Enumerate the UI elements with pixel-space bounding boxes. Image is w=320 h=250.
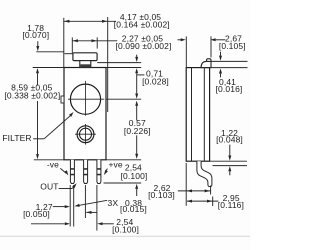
dim 0,57 upper shaft [136, 105, 138, 121]
out leader line a [59, 188, 73, 190]
svg-text:[0.100]: [0.100] [112, 225, 139, 235]
svg-text:[0.100]: [0.100] [121, 171, 148, 181]
circle center extension line [106, 98, 141, 100]
dim 2,62 right extension line [210, 186, 212, 195]
dim 4,17 right arrow [102, 20, 107, 23]
pin1 left extension line [69, 185, 71, 227]
pin 3 [97, 160, 101, 184]
dim 1,78 down arrow [36, 46, 39, 51]
dim 1,78 arrow shaft [37, 41, 39, 46]
dim 2,54 pitch left arrow [86, 211, 91, 214]
dim 4,17 dimension line [63, 20, 116, 22]
dim 0,71 top arrow [135, 57, 138, 62]
dim 0,41 top arrow [219, 56, 222, 61]
-ve leader arrow [64, 170, 68, 175]
cap top extension line [65, 53, 73, 55]
body bottom left extension line [34, 159, 64, 161]
lens cap [73, 53, 97, 61]
dim 3X 0,38 leader shaft [80, 200, 108, 205]
dim 1,22 lower shaft [229, 171, 231, 175]
hole crosshair horizontal [75, 133, 96, 135]
svg-text:FILTER: FILTER [2, 133, 31, 143]
hole crosshair vertical [85, 124, 87, 145]
side view lens nib and flange [207, 59, 211, 62]
dim 2,27 dimension line [72, 40, 117, 42]
dim 2,62 left extension line [185, 163, 187, 206]
lens window circle [70, 84, 100, 114]
dim 0,41 upper shaft [220, 52, 222, 56]
filter leader dash [33, 138, 44, 140]
dim 8,59 bottom arrow [36, 154, 39, 159]
dim 2,27 right extension line [96, 37, 98, 48]
side view inner wall right [203, 68, 205, 162]
dim 3X 0,38 arrow [74, 204, 79, 207]
filter leader diagonal [44, 116, 70, 139]
svg-text:OUT: OUT [40, 181, 58, 191]
pin1 right extension line [73, 185, 75, 227]
dim 2,62 left arrow [187, 189, 192, 192]
dim 2,54 pitch line [86, 211, 96, 213]
svg-text:[0.226]: [0.226] [124, 126, 151, 136]
dim 0,71 upper shaft [136, 55, 138, 58]
svg-text:[0.338 ±0.002]: [0.338 ±0.002] [4, 91, 60, 101]
dim 1,22 upper line [210, 160, 247, 162]
svg-text:+ve: +ve [108, 160, 122, 170]
+ve leader arrow [104, 170, 108, 175]
dim 2,27 left extension line [71, 37, 73, 53]
pin tip extension line [104, 182, 142, 184]
dim 2,95 right extension line [212, 197, 214, 207]
dim 2,54 span left arrow [65, 222, 70, 225]
svg-text:-ve: -ve [47, 160, 59, 170]
dim 8,59 upper shaft [37, 73, 39, 85]
pin3 left extension line [96, 185, 98, 231]
dim 0,57 upper up arrow [135, 101, 138, 106]
svg-text:[0.090 ±0.002]: [0.090 ±0.002] [116, 41, 172, 51]
dim 2,27 right arrow [92, 39, 97, 42]
mounting hole outer circle [77, 126, 94, 143]
body bottom right extension line [106, 159, 141, 161]
side tab [61, 96, 64, 103]
pin2 extension line [84, 185, 86, 218]
dim 2,67 right extension line [210, 36, 212, 57]
dim 1,22 top arrow [228, 156, 231, 161]
dim 8,59 lower shaft [37, 101, 39, 154]
dim 2,95 dimension line [187, 200, 218, 202]
side view lens dome [201, 61, 211, 67]
side view inner wall left [191, 68, 193, 162]
svg-text:[0.070]: [0.070] [22, 30, 49, 40]
pin 2 [84, 160, 88, 184]
dim 2,54 pin-length lower shaft [136, 189, 138, 196]
front view body [64, 68, 106, 160]
dim 2,54 span right shaft [103, 223, 114, 225]
side view body [186, 68, 209, 162]
lens circle crosshair horizontal [68, 98, 104, 100]
dim 2,67 left extension line [185, 36, 187, 67]
svg-text:[0.103]: [0.103] [148, 190, 175, 200]
svg-text:[0.116]: [0.116] [218, 200, 244, 210]
dim 1,27 leader arrow [65, 205, 70, 208]
svg-text:[0.164 ±0.002]: [0.164 ±0.002] [114, 19, 170, 29]
dim 4,17 left extension line [63, 18, 65, 68]
dim 0,41 bottom arrow [219, 68, 222, 73]
lens circle crosshair vertical [85, 81, 87, 116]
svg-text:[0.050]: [0.050] [23, 209, 50, 219]
dim 2,54 span right arrow [97, 222, 102, 225]
dim 2,27 left arrow [73, 39, 78, 42]
side view pin [197, 161, 212, 186]
dim 2,62 right arrow [205, 189, 210, 192]
dim 2,67 left arrow [181, 38, 186, 41]
dim 2,62 dimension line [178, 190, 210, 192]
body top right extension line [106, 67, 141, 69]
dim 2,95 left arrow [187, 200, 192, 203]
dim 2,67 right arrow [210, 38, 215, 41]
svg-text:[0.016]: [0.016] [216, 84, 243, 94]
dim 2,95 right arrow [207, 200, 212, 203]
dim 0,71 bottom arrow [135, 68, 138, 73]
pin 1 [70, 160, 74, 184]
dim 0,71 lower shaft [136, 73, 138, 93]
dim 4,17 right extension line [107, 17, 109, 112]
+ve leader line [105, 169, 107, 172]
-ve leader line [60, 168, 66, 173]
dim 0,57 lower down arrow [135, 154, 138, 159]
cap bottom extension line [97, 62, 141, 64]
svg-text:[0.015]: [0.015] [120, 204, 147, 214]
dim 0,57 lower shaft [136, 135, 138, 154]
dim 1,78 extension line [36, 51, 64, 53]
out leader arrow [72, 183, 76, 188]
dim 1,22 upper shaft [229, 145, 231, 156]
dim 0,41 upper line [211, 60, 247, 62]
svg-text:[0.105]: [0.105] [219, 41, 246, 51]
dim 0,57 upper down arrow [135, 94, 138, 99]
dim 0,41 lower shaft [220, 74, 222, 78]
mounting hole inner circle [80, 128, 92, 140]
dim 8,59 top arrow [36, 68, 39, 73]
svg-text:[0.048]: [0.048] [216, 135, 243, 145]
body top left extension line [33, 67, 64, 69]
dim 0,41 lower line [210, 67, 248, 69]
dim 4,17 left arrow [64, 20, 69, 23]
lens neck [80, 61, 91, 68]
filter leader arrow [69, 112, 74, 117]
dim 1,22 lower line [213, 165, 248, 167]
faint scan line [0, 235, 250, 237]
dim 2,67 right shaft [216, 39, 226, 41]
dim 2,67 left shaft [178, 39, 181, 41]
dim 1,22 bottom arrow [228, 166, 231, 171]
dim 2,54 pin-length up arrow [135, 184, 138, 189]
dim 1,27 leader shaft [53, 206, 65, 208]
svg-text:[0.028]: [0.028] [142, 76, 169, 86]
dim 2,54 span left shaft [31, 223, 65, 225]
out leader line b [72, 187, 73, 188]
dim 0,71 leader [137, 74, 145, 76]
